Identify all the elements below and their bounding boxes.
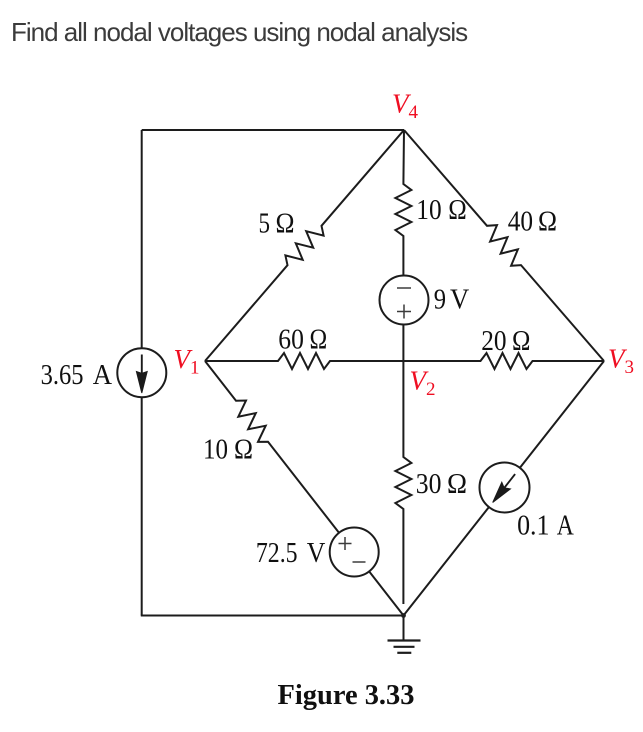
svg-text:Figure 3.33: Figure 3.33 xyxy=(278,679,415,711)
voltage source 72.5V circle xyxy=(330,528,379,577)
wire left outer loop xyxy=(141,130,143,616)
plus sign of 9V source xyxy=(397,305,411,319)
junction ground node dot xyxy=(401,613,406,618)
svg-text:30: 30 xyxy=(416,469,442,500)
wire vertical V2 down through 30ohm toward ground node xyxy=(395,361,411,604)
svg-text:9: 9 xyxy=(434,285,446,316)
svg-text:Ω: Ω xyxy=(234,435,253,466)
minus sign of 72.5V source xyxy=(353,561,366,563)
plus sign of 72.5V source xyxy=(339,537,352,550)
svg-text:Ω: Ω xyxy=(512,326,530,357)
wire bottom from loop to ground node xyxy=(141,615,404,617)
svg-text:10: 10 xyxy=(203,435,228,466)
svg-text:Ω: Ω xyxy=(448,195,467,226)
current source I1 3.65A circle xyxy=(117,348,166,397)
svg-text:10: 10 xyxy=(416,195,441,226)
svg-text:0.1: 0.1 xyxy=(517,511,549,542)
wire vertical V4 down through 10ohm and 9V to V2 xyxy=(395,130,411,361)
current source 0.1A circle xyxy=(480,463,530,513)
svg-text:V1: V1 xyxy=(174,344,200,379)
svg-text:Ω: Ω xyxy=(276,209,295,240)
svg-text:5: 5 xyxy=(259,209,271,240)
svg-text:40: 40 xyxy=(508,207,533,238)
svg-text:V: V xyxy=(450,285,469,316)
svg-text:60: 60 xyxy=(278,325,304,356)
wire diagonal V1 to V4 with resistor R 5ohm zigzag xyxy=(205,130,404,361)
svg-text:V2: V2 xyxy=(410,366,436,401)
svg-text:72.5: 72.5 xyxy=(256,538,298,569)
arrow of 3.65A source xyxy=(141,355,143,381)
svg-text:Ω: Ω xyxy=(447,469,467,500)
svg-text:A: A xyxy=(93,360,113,391)
wire diagonal V1 to ground node with 10ohm zigzag and 72.5V source xyxy=(205,361,404,616)
svg-text:V: V xyxy=(307,538,326,569)
ground xyxy=(403,616,405,641)
svg-text:Ω: Ω xyxy=(538,207,557,238)
svg-text:20: 20 xyxy=(481,326,506,357)
arrow of 0.1A source xyxy=(503,474,515,489)
svg-text:3.65: 3.65 xyxy=(41,360,84,391)
svg-text:V4: V4 xyxy=(392,89,419,124)
svg-text:Ω: Ω xyxy=(310,325,328,356)
wire horizontal V1 to V3 with 60ohm and 20ohm zigzags xyxy=(205,353,604,369)
problem statement text xyxy=(11,17,467,48)
wire diagonal V4 to V3 with resistor 40ohm zigzag xyxy=(404,130,604,361)
svg-text:A: A xyxy=(557,511,575,542)
wire top from loop to V4 xyxy=(142,129,404,131)
voltage source 9V circle xyxy=(380,276,429,325)
wire diagonal ground node to V3 through 0.1A source xyxy=(404,361,605,616)
minus sign of 9V source xyxy=(397,287,411,289)
svg-text:V3: V3 xyxy=(608,344,634,379)
